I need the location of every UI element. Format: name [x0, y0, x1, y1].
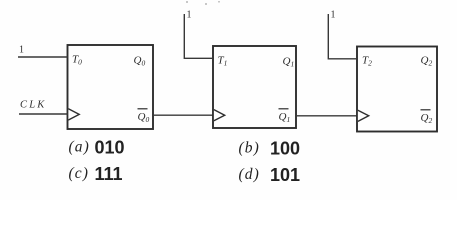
flip-flop U1 (T0) box [68, 45, 154, 129]
svg-text:1: 1 [187, 10, 192, 21]
svg-text:T2: T2 [362, 55, 372, 68]
svg-text:100: 100 [270, 139, 300, 159]
svg-text:Q1: Q1 [279, 111, 291, 124]
clock wedge U2 [214, 110, 225, 121]
svg-text:(a): (a) [69, 139, 90, 156]
svg-text:T0: T0 [72, 54, 82, 67]
wire: constant 1 to T0 input [18, 56, 68, 58]
svg-text:010: 010 [95, 138, 125, 158]
svg-text:CLK: CLK [20, 100, 46, 111]
svg-text:Q0: Q0 [138, 111, 150, 124]
flip-flop U2 (T1) box [213, 46, 296, 128]
svg-text:101: 101 [270, 165, 300, 185]
svg-text:(c): (c) [69, 165, 90, 182]
svg-text:(b): (b) [239, 140, 260, 157]
wire: CLK to U1 clock [19, 113, 68, 115]
svg-text:Q1: Q1 [283, 56, 295, 69]
svg-text:1: 1 [331, 10, 336, 21]
svg-text:T1: T1 [218, 55, 228, 68]
clock wedge U1 [68, 109, 79, 120]
svg-text:Q2: Q2 [421, 112, 433, 125]
scan speck artifacts [186, 1, 220, 5]
flip-flop U3 (T2) box [357, 47, 437, 132]
wire: Q0-bar to U2 clock [153, 114, 213, 116]
svg-text:111: 111 [95, 164, 123, 184]
svg-text:(d): (d) [239, 166, 260, 183]
svg-text:1: 1 [19, 45, 24, 56]
svg-text:Q0: Q0 [134, 55, 146, 68]
wire: constant 1 to T1 input [184, 14, 213, 58]
svg-text:Q2: Q2 [421, 55, 433, 68]
wire: Q1-bar to U3 clock [296, 115, 357, 117]
wire: constant 1 to T2 input [328, 14, 357, 59]
clock wedge U3 [358, 110, 369, 121]
